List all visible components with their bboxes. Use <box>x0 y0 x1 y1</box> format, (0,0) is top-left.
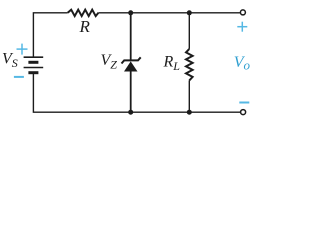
plus sign output <box>237 22 247 32</box>
output terminal bottom <box>241 110 246 115</box>
resistor RL <box>186 13 193 112</box>
zener diode VZ <box>122 13 141 112</box>
junction dots <box>128 10 133 15</box>
svg-text:R: R <box>79 17 91 36</box>
svg-text:VZ: VZ <box>101 52 118 72</box>
minus sign source <box>14 76 24 78</box>
svg-text:VS: VS <box>2 51 18 71</box>
svg-text:Vo: Vo <box>234 54 251 73</box>
resistor R <box>68 10 99 16</box>
wire top rail right segment <box>98 12 240 14</box>
plus sign source <box>17 44 28 55</box>
output terminal top <box>240 10 245 15</box>
svg-text:RL: RL <box>163 54 181 74</box>
wire left bottom <box>33 73 240 113</box>
battery VS <box>24 57 44 72</box>
wire top rail left segment <box>33 13 67 57</box>
minus sign output <box>239 102 249 104</box>
